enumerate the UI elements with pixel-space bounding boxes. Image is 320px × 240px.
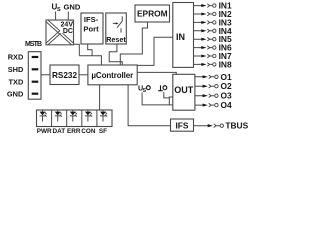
switch reset push-button symbol	[113, 16, 123, 32]
LED CON	[85, 110, 92, 121]
wire GND to converter	[67, 12, 69, 21]
svg-text:SHD: SHD	[8, 65, 24, 74]
svg-text:O4: O4	[221, 100, 233, 110]
svg-text:IFS: IFS	[175, 120, 188, 130]
svg-text:IFS-: IFS-	[84, 15, 99, 24]
output channel O4	[195, 100, 232, 110]
output channel O1	[195, 72, 232, 82]
power supply 24V DC converter	[45, 19, 74, 46]
input stage IN block	[173, 3, 194, 68]
wire IFS-Port to microcontroller	[79, 44, 101, 65]
svg-text:Reset: Reset	[106, 35, 126, 44]
memory EPROM block	[135, 5, 170, 22]
svg-text:DAT: DAT	[52, 128, 65, 135]
pin RXD dash	[32, 56, 39, 58]
input channel IN6	[194, 43, 232, 53]
input channel IN3	[194, 17, 232, 27]
svg-text:GND: GND	[64, 3, 81, 12]
svg-text:S: S	[57, 7, 61, 13]
LED DAT	[55, 110, 62, 121]
input channel IN5	[194, 34, 232, 44]
LED indicator block	[37, 110, 113, 127]
wire microcontroller to IFS block	[128, 85, 170, 126]
svg-text:MSTB: MSTB	[25, 41, 42, 48]
wire ground terminal to OUT block	[164, 92, 173, 105]
wire RS232 to microcontroller	[79, 74, 88, 76]
serial interface RS232 block	[50, 65, 79, 85]
output channel O2	[195, 81, 232, 91]
svg-text:CON: CON	[81, 128, 96, 135]
svg-text:PWR: PWR	[37, 128, 52, 135]
wire microcontroller to LED block	[99, 85, 101, 110]
wire Us to converter	[55, 12, 57, 21]
pin GND dash	[32, 93, 39, 95]
svg-text:IN: IN	[176, 32, 185, 42]
input channel IN7	[194, 51, 232, 61]
wire EPROM to microcontroller	[120, 22, 147, 65]
svg-text:S: S	[143, 88, 147, 94]
svg-text:O2: O2	[221, 81, 233, 91]
svg-text:Port: Port	[83, 25, 99, 34]
wire microcontroller to OUT block	[137, 72, 176, 74]
svg-text:OUT: OUT	[174, 85, 194, 95]
input channel IN4	[194, 26, 232, 36]
LED PWR	[40, 110, 47, 121]
pin TXD dash	[32, 81, 39, 83]
interface IFS-Port block	[81, 13, 103, 44]
switch Reset block	[106, 13, 127, 44]
bus TBUS connection	[194, 121, 249, 131]
wire Reset to microcontroller	[109, 44, 122, 65]
wire MSTB to RS232	[41, 74, 50, 76]
node Us supply label	[52, 3, 62, 14]
svg-text:µController: µController	[91, 71, 133, 80]
interface IFS block	[171, 119, 194, 131]
svg-text:EPROM: EPROM	[137, 9, 168, 19]
node Us output terminal label	[138, 84, 150, 94]
wire microcontroller to IN block	[137, 37, 173, 65]
svg-text:SF: SF	[99, 128, 107, 135]
processor U1 microcontroller block	[88, 65, 137, 85]
connector MSTB terminal block	[28, 52, 41, 99]
svg-text:RS232: RS232	[52, 71, 77, 80]
input channel IN1	[194, 1, 232, 11]
svg-text:TBUS: TBUS	[225, 121, 248, 131]
svg-text:IN8: IN8	[219, 59, 232, 69]
output stage OUT block	[173, 74, 195, 110]
LED SF	[100, 110, 107, 121]
svg-text:RXD: RXD	[8, 53, 24, 62]
pin SHD dash	[32, 68, 39, 70]
svg-text:DC: DC	[63, 28, 73, 35]
svg-text:TXD: TXD	[9, 77, 24, 86]
LED ERR	[70, 110, 77, 121]
output channel O3	[195, 91, 232, 101]
ground output terminal	[158, 85, 167, 90]
input channel IN8	[194, 59, 232, 69]
svg-text:GND: GND	[7, 89, 24, 98]
wire Us terminal to OUT block	[142, 92, 173, 105]
node GND label	[64, 3, 81, 12]
input channel IN2	[194, 9, 232, 19]
svg-text:ERR: ERR	[67, 128, 81, 135]
wire converter output to supply rail	[74, 44, 80, 56]
